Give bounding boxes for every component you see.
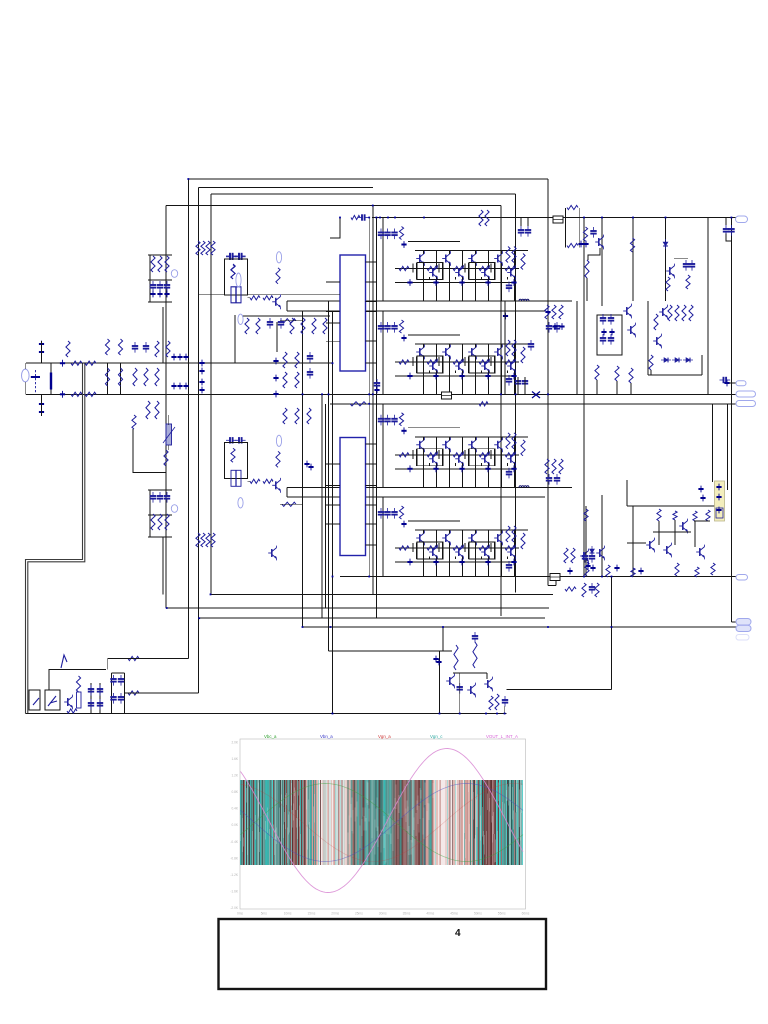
wire xyxy=(149,255,151,302)
capacitor C26 xyxy=(132,342,138,353)
resistor R49 xyxy=(71,361,82,365)
connector P6 xyxy=(736,619,751,626)
wire xyxy=(449,542,451,576)
junction J8 xyxy=(407,373,412,380)
input rectifier / opto cluster xyxy=(29,655,199,714)
resistor R94 xyxy=(282,319,296,323)
connector P4 xyxy=(736,401,756,407)
node junction J100 xyxy=(547,626,549,628)
wire U2 pin right xyxy=(366,504,378,506)
resistor R24 xyxy=(505,453,515,457)
opto isolator U4 xyxy=(45,690,60,710)
transistor Q17 xyxy=(416,437,424,452)
capacitor C40 xyxy=(226,254,237,260)
resistor R75 xyxy=(295,372,299,388)
wire to highlighted part xyxy=(727,404,729,490)
magenta output sine VOUT_L_INT_A xyxy=(241,749,524,893)
capacitor C51 xyxy=(457,683,463,694)
probe bubble xyxy=(171,270,177,278)
transistor Q8 xyxy=(507,265,515,280)
junction J51 xyxy=(164,291,169,298)
wire xyxy=(408,241,460,243)
resistor R95 xyxy=(164,450,168,466)
capacitor C12 xyxy=(506,468,512,479)
resistor R107 xyxy=(454,645,458,670)
resistor R4 xyxy=(453,266,463,270)
wire xyxy=(475,344,477,348)
wire vertical x576 xyxy=(576,301,578,394)
resistor R92 xyxy=(263,296,273,300)
electrolytic capacitor C hold xyxy=(50,373,52,390)
resistor R57 xyxy=(133,368,137,386)
svg-text:50ms: 50ms xyxy=(474,912,482,916)
resistor R126 xyxy=(686,275,690,289)
wire loop4 left vertical xyxy=(165,206,167,609)
resistor R69 xyxy=(301,318,305,334)
wire xyxy=(468,542,470,559)
junction J1 xyxy=(401,241,406,248)
node junction J85 xyxy=(731,217,733,219)
wire xyxy=(449,437,451,441)
resistor R100 xyxy=(201,533,205,547)
wire xyxy=(462,463,464,487)
wire main top bus xyxy=(372,217,736,219)
bias network cluster xyxy=(242,316,330,334)
svg-text:Vgn_a: Vgn_a xyxy=(378,734,391,739)
resistor R80 xyxy=(158,256,162,272)
wire xyxy=(481,370,483,373)
wire xyxy=(125,692,199,694)
junction J17 xyxy=(485,465,490,472)
wire U1 pin xyxy=(326,341,340,343)
resistor R110 xyxy=(495,694,499,710)
plot legend labels xyxy=(264,734,518,739)
wire block1 bottom rail xyxy=(287,300,572,302)
resistor R34 xyxy=(506,526,510,542)
capacitor C6 xyxy=(384,322,390,333)
wire xyxy=(501,251,503,255)
wire vertical x505 xyxy=(504,301,506,394)
node junction J71 xyxy=(368,217,370,219)
capacitor C62 xyxy=(723,225,729,236)
resistor R140 xyxy=(675,563,679,576)
wire U1 pin xyxy=(326,281,340,283)
node junction J110 xyxy=(198,617,200,619)
junction J56 xyxy=(601,329,606,336)
wire U1 pin xyxy=(326,322,340,324)
wire U1 pin right xyxy=(366,301,378,303)
wire lower bus xyxy=(395,561,515,563)
node junction J111 xyxy=(210,594,212,596)
wire xyxy=(423,356,425,394)
wire xyxy=(148,489,172,491)
wire xyxy=(423,437,425,441)
wire xyxy=(412,357,414,366)
wire pair box xyxy=(469,542,495,559)
wire xyxy=(449,344,451,348)
resistor R98 xyxy=(132,415,136,429)
connector P3 xyxy=(736,391,756,397)
wire rail stub xyxy=(286,301,288,311)
wire xyxy=(449,530,451,534)
wire U1 pin right xyxy=(366,311,378,313)
wire xyxy=(107,363,109,394)
wire U2 pin right xyxy=(366,443,378,445)
resistor R120 xyxy=(567,205,578,209)
resistor R81 xyxy=(165,256,169,272)
probe bubble xyxy=(171,505,177,513)
wire xyxy=(429,370,431,373)
wire xyxy=(648,374,702,376)
wire xyxy=(658,521,660,545)
wire lower bus xyxy=(395,282,515,284)
transistor Q14 xyxy=(481,359,489,374)
wire block2 top rail xyxy=(287,310,545,312)
transistor Q27 xyxy=(442,531,450,546)
inverter leg block 3 xyxy=(287,404,572,488)
resistor R79 xyxy=(151,256,155,272)
wire lower bus xyxy=(395,468,515,470)
resistor R3 xyxy=(427,266,437,270)
resistor R122 xyxy=(583,227,587,241)
wire xyxy=(462,251,464,269)
node junction J104 xyxy=(459,713,461,715)
resistor R83 xyxy=(158,514,162,530)
resistor R84 xyxy=(165,514,169,530)
wire pair box xyxy=(469,449,495,466)
wire xyxy=(436,251,438,269)
wire to driver IC xyxy=(199,294,340,296)
wire to connector xyxy=(731,621,736,623)
wire xyxy=(514,530,516,548)
resistor R32 xyxy=(479,546,489,550)
resistor R139 xyxy=(631,568,635,577)
resistor R115 xyxy=(668,305,672,321)
resistor R70 xyxy=(312,318,316,334)
junction J62 xyxy=(698,486,703,493)
junction J44 xyxy=(199,379,204,386)
node junction J103 xyxy=(439,713,441,715)
wire xyxy=(412,450,414,459)
resistor R61 xyxy=(155,368,159,386)
wire xyxy=(650,370,652,375)
capacitor C42 xyxy=(88,685,94,696)
junction J25 xyxy=(545,309,550,316)
wire bottom center xyxy=(507,689,612,691)
transistor Q28 xyxy=(455,545,463,560)
wire vertical x332 xyxy=(332,311,334,714)
resistor R93 xyxy=(276,268,280,284)
junction J59 xyxy=(583,241,588,248)
wire thick return path inner xyxy=(28,364,85,714)
junction J49 xyxy=(150,291,155,298)
wire xyxy=(276,322,278,352)
wire vertical x602 lower xyxy=(601,495,603,577)
wire xyxy=(475,263,477,301)
node junction J89 xyxy=(500,393,502,395)
resistor R102 xyxy=(211,533,215,547)
resistor R76 xyxy=(283,408,287,424)
junction J69 xyxy=(716,494,721,501)
node junction J92 xyxy=(339,217,341,219)
wire xyxy=(108,658,189,660)
junction J54 xyxy=(433,656,438,663)
junction J2 xyxy=(407,279,412,286)
resistor R1 xyxy=(399,227,403,240)
wire xyxy=(694,520,710,522)
junction J5 xyxy=(485,279,490,286)
wire xyxy=(24,382,26,394)
svg-text:1.2K: 1.2K xyxy=(231,774,238,778)
connector P1 xyxy=(736,216,748,223)
wire xyxy=(596,380,598,394)
capacitor C29 xyxy=(278,318,284,329)
wire center vertical 1 xyxy=(368,218,370,577)
wire xyxy=(412,264,414,273)
svg-text:4: 4 xyxy=(455,928,461,939)
wire xyxy=(514,344,516,362)
svg-text:Vbc_a: Vbc_a xyxy=(264,734,277,739)
capacitor C7 xyxy=(391,322,397,333)
resistor R133 xyxy=(657,509,661,521)
capacitor C4 xyxy=(506,282,512,293)
wire xyxy=(565,208,567,248)
resistor R138 xyxy=(606,565,610,577)
wire xyxy=(494,263,496,280)
wire pair box xyxy=(469,356,495,373)
wire xyxy=(133,429,166,473)
wire emitter bus xyxy=(395,547,519,549)
wire xyxy=(514,370,516,394)
capacitor C56 xyxy=(608,334,614,345)
svg-text:60ms: 60ms xyxy=(522,912,530,916)
svg-text:25ms: 25ms xyxy=(355,912,363,916)
resistor R106 xyxy=(128,691,139,695)
resistor R52 xyxy=(85,392,96,396)
resistor R104 xyxy=(67,709,77,713)
wire xyxy=(455,463,457,466)
wire xyxy=(475,437,477,441)
transistor Q36 xyxy=(64,695,72,710)
wire xyxy=(462,437,464,455)
resistor R129 xyxy=(565,587,576,591)
wire xyxy=(468,263,470,280)
junction J24 xyxy=(511,559,516,566)
capacitor C36 xyxy=(157,492,163,503)
resistor R5 xyxy=(479,266,489,270)
wire xyxy=(438,264,440,273)
arrow mark xyxy=(61,655,67,668)
wire xyxy=(148,301,172,303)
node junction J73 xyxy=(376,217,378,219)
wire main mid bus B xyxy=(330,403,736,405)
resistor R55 xyxy=(105,368,109,386)
wire xyxy=(694,521,696,547)
resistor R71 xyxy=(323,318,327,334)
resistor R111 xyxy=(595,365,599,380)
transistor Q48 xyxy=(646,538,654,553)
resistor R6 xyxy=(505,266,515,270)
diode D2 xyxy=(672,358,682,363)
mosfet xyxy=(231,287,241,303)
highlighted component (yellow) xyxy=(715,481,725,521)
svg-text:-0.4K: -0.4K xyxy=(230,840,238,844)
wire xyxy=(507,370,509,373)
AC source V1 xyxy=(22,369,30,382)
transistor Q1 xyxy=(416,251,424,266)
wire lower bus xyxy=(395,375,515,377)
probe bubble xyxy=(238,314,243,324)
node junction J76 xyxy=(368,403,370,405)
capacitor C13 xyxy=(378,508,384,519)
transistor Q3 xyxy=(442,251,450,266)
wire xyxy=(488,530,490,548)
probe bubble xyxy=(238,498,243,508)
wire xyxy=(674,520,676,545)
wire thick return path outer xyxy=(26,364,83,714)
wire bus loop3 top xyxy=(211,193,516,195)
connector P5 xyxy=(736,575,748,581)
wire xyxy=(416,542,418,559)
wire lower long bus xyxy=(340,576,736,578)
node junction J90 xyxy=(515,393,517,395)
junction J60 xyxy=(724,380,729,387)
wire xyxy=(462,370,464,394)
junction J4 xyxy=(459,279,464,286)
mosfet M xyxy=(231,470,241,486)
resistor R35 xyxy=(512,526,516,542)
node junction J105 xyxy=(485,713,487,715)
inverter leg block 1 xyxy=(287,218,572,302)
transistor Q16 xyxy=(507,359,515,374)
wire xyxy=(455,277,457,280)
resistor R105 xyxy=(128,656,139,660)
junction J9 xyxy=(433,373,438,380)
junction J55 xyxy=(436,659,441,666)
node junction J93 xyxy=(379,217,381,219)
wire xyxy=(248,480,251,482)
capacitor C35 xyxy=(150,492,156,503)
wire xyxy=(234,315,236,363)
resistor R23 xyxy=(479,453,489,457)
node junction J87 xyxy=(583,576,585,578)
wire xyxy=(481,556,483,559)
svg-text:55ms: 55ms xyxy=(498,912,506,916)
resistor R30 xyxy=(427,546,437,550)
wire xyxy=(514,277,516,301)
wire xyxy=(455,370,457,373)
resistor R66 xyxy=(245,318,249,334)
wire center vertical 3 xyxy=(375,218,377,619)
junction J22 xyxy=(459,559,464,566)
junction J23 xyxy=(485,559,490,566)
junction J70 xyxy=(716,507,721,514)
capacitor C43 xyxy=(88,699,94,710)
transistor Q24 xyxy=(507,451,515,466)
resistor R114 xyxy=(654,314,658,330)
resistor R109 xyxy=(489,696,493,710)
connector P7 xyxy=(736,625,751,631)
capacitor C45 xyxy=(97,699,103,710)
wire xyxy=(514,437,516,455)
resistor R112 xyxy=(615,366,619,381)
capacitor C61 xyxy=(689,260,695,271)
capacitor C5 xyxy=(378,322,384,333)
wire center vertical 2 xyxy=(372,206,374,595)
junction J43 xyxy=(199,368,204,375)
resistor R68 xyxy=(290,318,294,334)
junction J45 xyxy=(199,387,204,394)
wire vertical x731 xyxy=(730,222,732,622)
transistor Q35 xyxy=(268,546,276,561)
transistor Q39 xyxy=(484,677,492,692)
diode D3 xyxy=(683,358,693,363)
junction J61 xyxy=(567,568,572,575)
wire vertical x665 xyxy=(665,218,667,302)
wire xyxy=(507,463,509,466)
transistor Q47 xyxy=(679,519,687,534)
capacitor C34 xyxy=(164,281,170,292)
resistor R62 xyxy=(196,241,200,255)
wire xyxy=(488,556,490,576)
wire bottom bus 2 xyxy=(167,607,549,609)
wire U2 pin right xyxy=(366,523,378,525)
resistor R82 xyxy=(151,514,155,530)
wire U2 pin right xyxy=(366,463,378,465)
connector P2 xyxy=(736,381,746,386)
wire xyxy=(464,543,466,552)
wire stub xyxy=(548,585,556,587)
junction J19 xyxy=(401,521,406,528)
junction J46 xyxy=(273,358,278,365)
wire xyxy=(501,542,503,576)
wire bus loop2 top xyxy=(199,187,373,189)
resistor R48 xyxy=(66,341,70,357)
resistor R85 xyxy=(231,448,235,462)
output sense cluster xyxy=(433,627,508,714)
junction J64 xyxy=(590,565,595,572)
mosfet M xyxy=(231,287,241,303)
transistor Q26 xyxy=(429,545,437,560)
wire xyxy=(674,258,688,260)
gate driver IC U1 xyxy=(340,255,366,371)
wire xyxy=(408,427,460,429)
junction J36 xyxy=(171,354,176,361)
wire xyxy=(507,277,509,280)
wire xyxy=(488,344,490,362)
svg-text:0.8K: 0.8K xyxy=(231,790,238,794)
junction J47 xyxy=(273,375,278,382)
wire loop2 left vertical xyxy=(198,188,200,694)
node junction J86 xyxy=(611,576,613,578)
wire xyxy=(438,450,440,459)
svg-text:-1.6K: -1.6K xyxy=(230,890,238,894)
capacitor C30 xyxy=(307,352,313,363)
resistor R63 xyxy=(201,241,205,255)
wire xyxy=(481,463,483,466)
transistor Q33 xyxy=(272,478,280,493)
wire block4 top rail xyxy=(287,496,545,498)
capacitor C1 xyxy=(378,229,384,240)
wire xyxy=(412,543,414,552)
resistor R74 xyxy=(283,372,287,388)
resistor R26 xyxy=(512,433,516,449)
node junction J80 xyxy=(332,362,334,364)
junction J35 xyxy=(60,391,65,398)
resistor R10 xyxy=(399,320,403,333)
wire xyxy=(436,463,438,487)
resistor R40 xyxy=(545,305,549,319)
